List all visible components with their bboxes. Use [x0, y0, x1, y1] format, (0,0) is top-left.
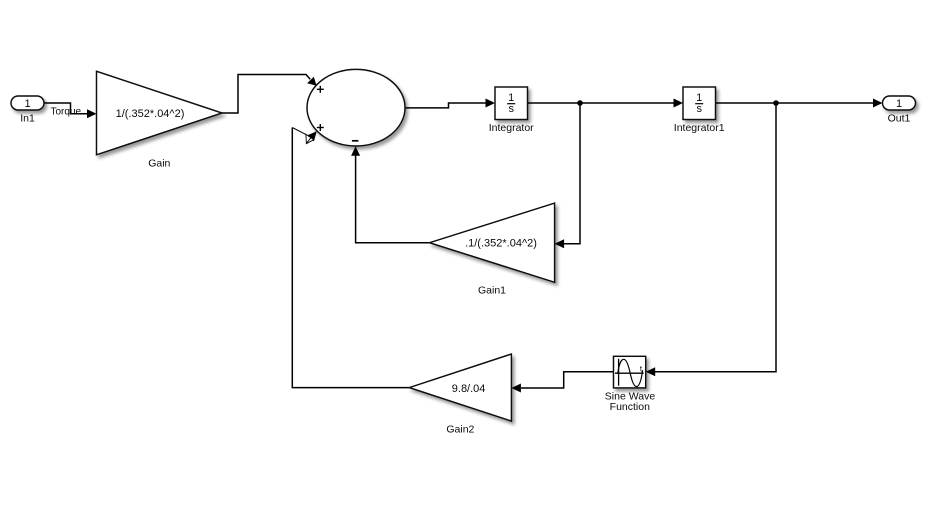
- sine wave function block: [614, 356, 646, 388]
- svg-text:1: 1: [24, 98, 30, 110]
- gain Gain: [97, 71, 223, 155]
- wire In1 to Gain: [44, 103, 88, 114]
- svg-text:In1: In1: [20, 113, 35, 125]
- wire Integrator1 to Out1: [716, 102, 875, 104]
- arrowhead into Gain: [87, 109, 97, 118]
- integrator Integrator1: [683, 87, 716, 120]
- arrowhead into Out1: [873, 99, 883, 108]
- sum block: [307, 69, 405, 146]
- svg-text:s: s: [696, 103, 702, 115]
- svg-text:Out1: Out1: [888, 113, 911, 125]
- wire Sum to Integrator: [405, 103, 487, 108]
- svg-text:1: 1: [896, 98, 902, 110]
- svg-text:s: s: [508, 103, 514, 115]
- junction dot after Integrator1: [773, 100, 779, 106]
- svg-text:.1/(.352*.04^2): .1/(.352*.04^2): [465, 238, 537, 250]
- svg-text:1/(.352*.04^2): 1/(.352*.04^2): [116, 108, 185, 120]
- sum sign + top: [317, 86, 324, 93]
- arrowhead into Sum lower +: [307, 131, 317, 141]
- arrowhead into Integrator: [486, 99, 496, 108]
- gain Gain1: [430, 203, 555, 282]
- svg-text:Integrator: Integrator: [489, 122, 534, 134]
- wire Gain2 to Sum (+ lower-left): [292, 128, 409, 388]
- sine icon curve: [618, 359, 643, 386]
- arrowhead into Gain1: [555, 239, 565, 248]
- arrowhead into Sine Wave Function: [646, 367, 656, 376]
- svg-text:Torque: Torque: [51, 107, 82, 118]
- cursor tail line: [306, 132, 316, 144]
- arrowhead into Sum bottom -: [351, 146, 360, 156]
- wire Gain to Sum (+ top): [222, 75, 310, 114]
- wire Gain1 to Sum (- bottom): [356, 156, 430, 243]
- wire Sine Wave Function to Gain2: [521, 372, 614, 388]
- sum sign - bottom: [352, 140, 359, 142]
- arrowhead into Sum top +: [307, 77, 317, 86]
- svg-text:Function: Function: [610, 401, 650, 413]
- junction dot after Integrator: [577, 100, 583, 106]
- sine icon horizontal axis: [615, 372, 644, 374]
- svg-text:9.8/.04: 9.8/.04: [452, 383, 486, 395]
- wire Integrator to Integrator1: [528, 102, 676, 104]
- svg-text:Gain1: Gain1: [478, 285, 506, 297]
- sum sign + lower: [317, 124, 324, 131]
- sine icon vertical axis: [618, 359, 620, 386]
- wire branch junction to Sine Wave Function: [655, 103, 776, 372]
- outport Out1: [883, 96, 916, 110]
- wire diagonal segment to Sum lower + port: [292, 128, 306, 135]
- wire branch junction to Gain1: [563, 103, 580, 244]
- arrowhead into Gain2: [511, 384, 521, 393]
- integrator Integrator: [495, 87, 528, 120]
- cursor open arrow overlay: [306, 134, 314, 143]
- svg-text:Integrator1: Integrator1: [674, 122, 725, 134]
- arrowhead into Integrator1: [674, 99, 684, 108]
- inport In1: [11, 96, 44, 110]
- svg-text:Gain: Gain: [148, 157, 170, 169]
- svg-text:Gain2: Gain2: [446, 423, 474, 435]
- gain Gain2: [409, 354, 511, 421]
